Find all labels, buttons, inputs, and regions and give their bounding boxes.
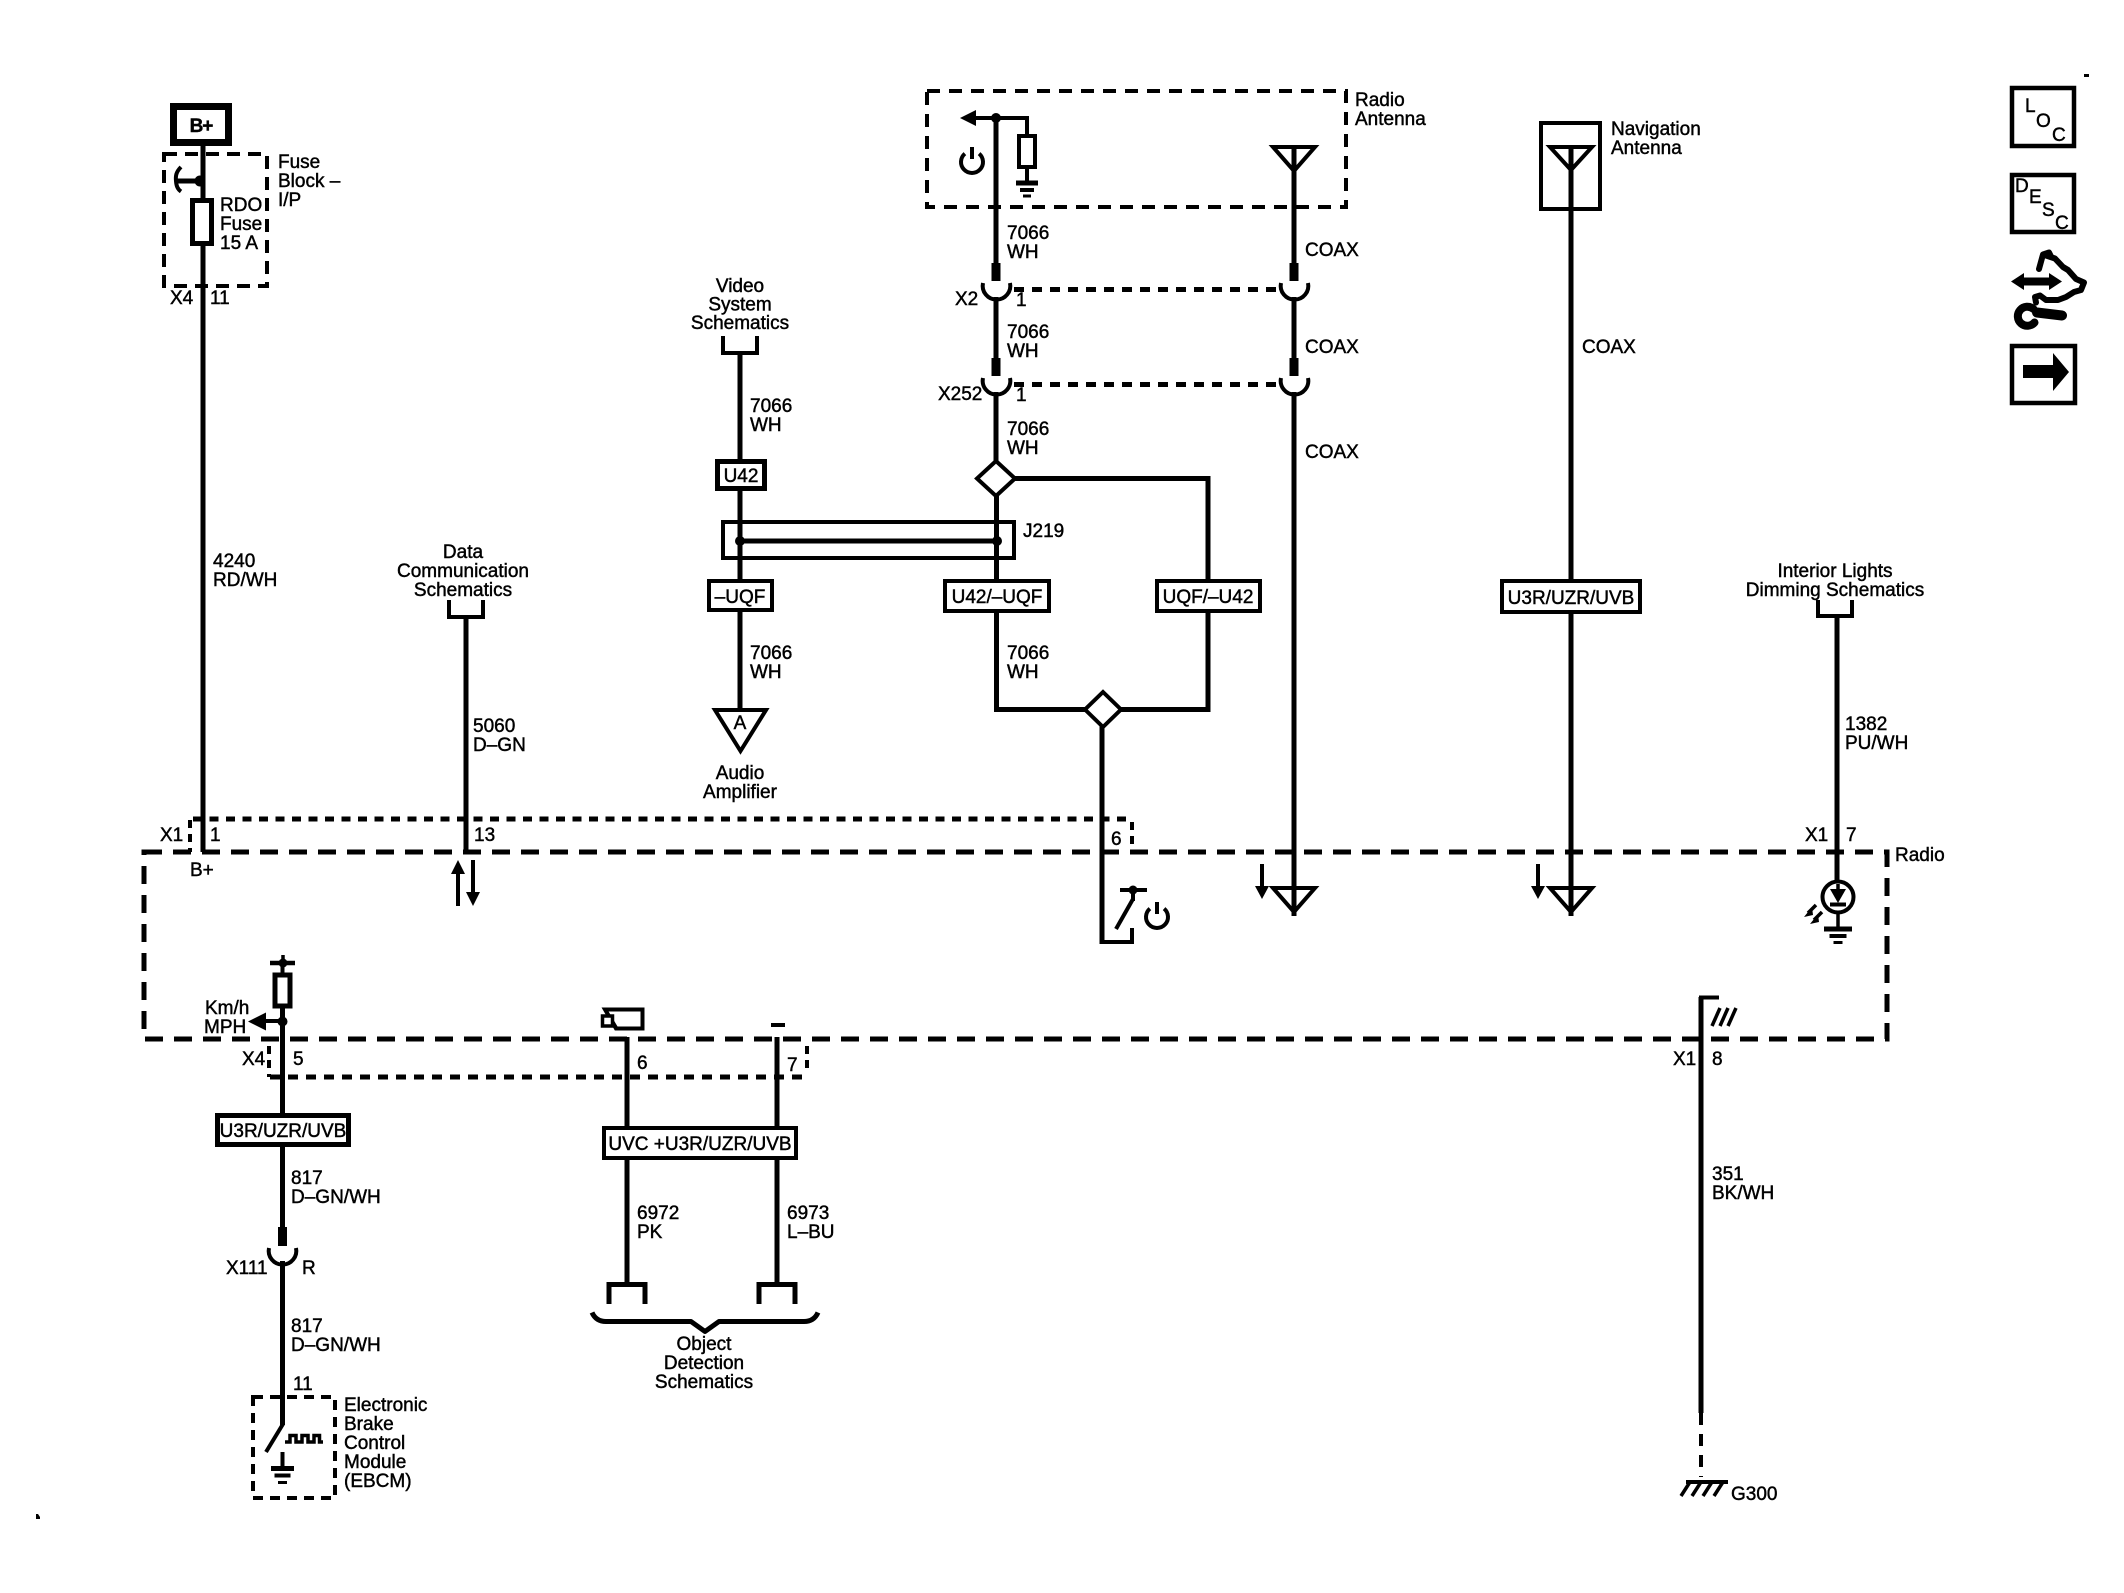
svg-text:Electronic: Electronic <box>344 1395 427 1416</box>
inline connector X252 left half <box>983 358 1011 395</box>
label 7066 WH (to lower splice) <box>1007 643 1049 683</box>
label Interior Lights Dimming Schematics <box>1746 561 1924 601</box>
svg-text:13: 13 <box>474 825 495 846</box>
svg-text:Antenna: Antenna <box>1611 138 1682 159</box>
option box -UQF <box>709 581 772 610</box>
label 5060 D-GN <box>473 716 526 756</box>
svg-text:X4: X4 <box>170 288 194 309</box>
labels X1 / 8 (bottom right pins) <box>1673 1049 1723 1070</box>
label Km/h MPH <box>204 998 249 1038</box>
DESC icon box <box>2012 175 2074 234</box>
wire radio pin X4-5 <box>280 1039 285 1115</box>
label 7066 WH (below X252) <box>1007 419 1049 459</box>
svg-text:G300: G300 <box>1731 1484 1777 1505</box>
svg-text:6972: 6972 <box>637 1203 679 1224</box>
B+ power feed box <box>174 107 229 143</box>
dashed wire to G300 <box>1699 1413 1703 1477</box>
wire 7066 WH below X252 <box>994 392 999 463</box>
label 1382 PU/WH <box>1845 714 1908 754</box>
LOC icon box <box>2012 88 2074 146</box>
fuse block I/P dashed box <box>164 154 267 286</box>
svg-text:6: 6 <box>1111 829 1122 850</box>
wire U42 to J219 <box>738 489 743 579</box>
down arrow (radio antenna coax termination) <box>1255 864 1269 899</box>
navigation antenna mast symbol <box>1550 147 1592 581</box>
svg-text:1382: 1382 <box>1845 714 1887 735</box>
svg-text:B+: B+ <box>190 860 214 881</box>
label 817 D-GN/WH (lower) <box>291 1316 381 1356</box>
labels X111 / R <box>226 1258 316 1279</box>
X1 tick (top left) <box>188 820 192 852</box>
wire 7066 WH video to U42 <box>738 355 743 461</box>
brace (object detection) <box>592 1313 818 1332</box>
inline connector X252 right half (coax) <box>1281 358 1309 395</box>
label 4240 RD/WH <box>213 551 277 591</box>
inline connector X2 left half <box>983 263 1011 300</box>
label Radio Antenna <box>1355 90 1426 130</box>
wire pin 7 <box>775 1037 780 1130</box>
svg-text:Fuse: Fuse <box>278 152 320 173</box>
wire from splice to UQF/-U42 branch <box>1013 476 1211 581</box>
label 7066 WH (video) <box>750 396 792 436</box>
svg-text:6973: 6973 <box>787 1203 829 1224</box>
label 7066 WH (to amplifier) <box>750 643 792 683</box>
svg-text:Schematics: Schematics <box>691 313 789 334</box>
down arrow (navigation coax termination) <box>1531 864 1545 899</box>
label Video System Schematics <box>691 276 789 334</box>
svg-text:351: 351 <box>1712 1164 1744 1185</box>
splice diamond (antenna lead) <box>977 461 1015 496</box>
svg-text:Audio: Audio <box>716 763 765 784</box>
wire 5060 D-GN <box>464 619 469 852</box>
vehicle/wrench icon <box>2011 253 2084 326</box>
splice pack J219 <box>723 522 1014 558</box>
svg-text:–UQF: –UQF <box>715 587 766 608</box>
svg-text:1: 1 <box>210 825 221 846</box>
wire 7066 WH between X2 and X252 <box>994 297 999 360</box>
terminal symbol (6972) <box>609 1285 645 1305</box>
svg-text:L–BU: L–BU <box>787 1222 835 1243</box>
wire 4240 RD/WH from fuse block to radio pin X1-1 <box>201 246 206 852</box>
svg-text:817: 817 <box>291 1168 323 1189</box>
inline connector X2 right half (coax) <box>1281 263 1309 300</box>
svg-text:7066: 7066 <box>1007 223 1049 244</box>
coax wire down to radio <box>1292 392 1297 916</box>
labels 6 / 7 (bottom pins) <box>637 1053 798 1076</box>
label Electronic Brake Control Module (EBCM) <box>344 1395 427 1492</box>
labels X4 / 5 (bottom pins) <box>242 1049 304 1070</box>
radio antenna dashed box <box>927 91 1346 207</box>
svg-text:Dimming Schematics: Dimming Schematics <box>1746 580 1924 601</box>
svg-text:Amplifier: Amplifier <box>703 782 778 803</box>
navigation antenna box <box>1541 123 1600 209</box>
connector X4 pin 11 labels <box>170 288 230 309</box>
svg-text:Fuse: Fuse <box>220 214 262 235</box>
pin 6 dashed tick <box>1130 822 1134 852</box>
power symbol (antenna amplifier supply) <box>961 147 983 173</box>
svg-text:D–GN/WH: D–GN/WH <box>291 1335 381 1356</box>
minus sign (pin 7) <box>771 1023 785 1027</box>
radio bottom pin row dashed line <box>270 1075 807 1080</box>
svg-text:WH: WH <box>1007 242 1039 263</box>
svg-text:Radio: Radio <box>1355 90 1405 111</box>
speck artifact bottom left <box>36 1514 40 1519</box>
svg-text:7066: 7066 <box>1007 322 1049 343</box>
radio power switch symbol <box>1102 886 1147 945</box>
svg-text:Radio: Radio <box>1895 845 1945 866</box>
wire from UQF/-U42 to lower splice <box>1119 611 1211 712</box>
off-page connector bracket (video system) <box>723 336 757 353</box>
illumination LED symbol (pin X1-7) <box>1823 852 1854 913</box>
label 7066 WH (between connectors) <box>1007 322 1049 362</box>
svg-text:15 A: 15 A <box>220 233 258 254</box>
svg-text:COAX: COAX <box>1305 337 1359 358</box>
wire 7066 WH to audio amplifier <box>738 610 743 712</box>
svg-text:BK/WH: BK/WH <box>1712 1183 1774 1204</box>
terminal symbol (6973) <box>759 1285 795 1305</box>
EBCM dashed box <box>253 1397 335 1498</box>
option box U3R/UZR/UVB (speed signal) <box>218 1116 349 1145</box>
label Fuse Block - I/P <box>278 152 341 211</box>
wire 7066 WH from U42/-UQF to lower splice <box>994 611 1087 712</box>
svg-text:Brake: Brake <box>344 1414 394 1435</box>
wire 1382 PU/WH <box>1835 618 1840 883</box>
wire from splice down through J219 <box>994 494 999 581</box>
antenna feed arrow and node inside radio antenna box <box>960 110 1027 136</box>
svg-text:PK: PK <box>637 1222 663 1243</box>
svg-text:X1: X1 <box>160 825 183 846</box>
Km/h MPH output arrow <box>248 1006 288 1039</box>
svg-text:E: E <box>2029 187 2042 208</box>
svg-text:7: 7 <box>1846 825 1857 846</box>
svg-text:X4: X4 <box>242 1049 266 1070</box>
inline connector X111 <box>269 1227 297 1265</box>
off-page connector bracket (data communication) <box>449 600 483 617</box>
svg-text:C: C <box>2055 213 2069 234</box>
label 6972 PK <box>637 1203 679 1243</box>
label 351 BK/WH <box>1712 1164 1774 1204</box>
svg-text:Detection: Detection <box>664 1353 744 1374</box>
wire 817 D-GN/WH lower <box>280 1261 285 1399</box>
svg-text:COAX: COAX <box>1582 337 1636 358</box>
labels X1 / 1 (top left pins) <box>160 825 221 846</box>
coax wire between X2 and X252 <box>1292 297 1297 360</box>
wire 817 D-GN/WH upper <box>280 1144 285 1230</box>
svg-text:WH: WH <box>750 415 782 436</box>
svg-text:UVC +U3R/UZR/UVB: UVC +U3R/UZR/UVB <box>608 1134 791 1155</box>
svg-text:Control: Control <box>344 1433 405 1454</box>
svg-text:Schematics: Schematics <box>655 1372 753 1393</box>
svg-text:Communication: Communication <box>397 561 529 582</box>
svg-text:6: 6 <box>637 1053 648 1074</box>
svg-text:A: A <box>734 713 747 734</box>
option box U42/-UQF <box>945 581 1049 611</box>
antenna receptacle symbol (navigation) <box>1550 888 1592 912</box>
svg-text:D: D <box>2015 176 2029 197</box>
svg-text:Antenna: Antenna <box>1355 109 1426 130</box>
ground inside EBCM <box>271 1452 294 1483</box>
svg-text:R: R <box>302 1258 316 1279</box>
camera icon (rear view) <box>603 1009 643 1029</box>
X4 tick (bottom) <box>267 1046 271 1077</box>
svg-text:4240: 4240 <box>213 551 255 572</box>
speed signal resistor (Km/h MPH) <box>270 955 295 1006</box>
wire 6972 PK <box>625 1158 630 1284</box>
label Data Communication Schematics <box>397 542 529 601</box>
EBCM switch and pulse generator <box>266 1399 323 1452</box>
svg-text:L: L <box>2025 96 2036 117</box>
wire from B+ into fuse block <box>201 146 206 206</box>
svg-text:U42: U42 <box>724 466 759 487</box>
connector X252 dashed row <box>1014 382 1278 387</box>
serial data bidirectional arrows inside radio <box>451 860 480 906</box>
svg-text:1: 1 <box>1016 385 1027 406</box>
pin 7 dashed tick <box>805 1046 809 1072</box>
option box UVC +U3R/UZR/UVB <box>604 1128 796 1158</box>
svg-text:7: 7 <box>787 1055 798 1076</box>
wire camera pin 6 <box>625 1037 630 1130</box>
svg-text:11: 11 <box>210 288 230 309</box>
wire 7066 WH antenna lead <box>994 118 999 265</box>
svg-text:B+: B+ <box>190 116 214 137</box>
radio connector X1 top pin row dashed line <box>193 817 1131 822</box>
forward arrow icon box <box>2012 346 2075 403</box>
labels X1 / 7 (radio top right pins) <box>1805 825 1857 846</box>
label Object Detection Schematics <box>655 1334 753 1393</box>
svg-text:7066: 7066 <box>1007 419 1049 440</box>
svg-text:1: 1 <box>1016 290 1027 311</box>
audio amplifier triangle A <box>715 710 766 751</box>
off-page connector bracket (interior lights dimming) <box>1818 600 1852 616</box>
svg-text:11: 11 <box>293 1374 313 1395</box>
wire 6973 L-BU <box>775 1158 780 1284</box>
svg-text:5060: 5060 <box>473 716 515 737</box>
LED light emission arrows <box>1804 905 1822 924</box>
svg-text:Block –: Block – <box>278 171 341 192</box>
resistor (antenna feed) <box>1019 136 1035 167</box>
svg-text:7066: 7066 <box>1007 643 1049 664</box>
svg-text:Module: Module <box>344 1452 406 1473</box>
antenna receptacle symbol (radio antenna) <box>1273 888 1315 912</box>
fuse block bus hook <box>176 167 206 192</box>
svg-text:U3R/UZR/UVB: U3R/UZR/UVB <box>220 1121 347 1142</box>
svg-text:O: O <box>2036 111 2051 132</box>
svg-text:PU/WH: PU/WH <box>1845 733 1908 754</box>
fuse RDO 15 A <box>193 201 212 244</box>
svg-text:Interior Lights: Interior Lights <box>1777 561 1892 582</box>
label Navigation Antenna <box>1611 119 1701 159</box>
svg-text:RDO: RDO <box>220 195 262 216</box>
svg-text:Navigation: Navigation <box>1611 119 1701 140</box>
radio dashed outline <box>144 852 1887 1039</box>
svg-text:Schematics: Schematics <box>414 580 512 601</box>
svg-text:Data: Data <box>443 542 484 563</box>
svg-text:UQF/–U42: UQF/–U42 <box>1163 587 1254 608</box>
svg-text:(EBCM): (EBCM) <box>344 1471 412 1492</box>
ground under LED <box>1824 913 1852 943</box>
splice diamond (lower) <box>1085 692 1121 727</box>
svg-text:D–GN/WH: D–GN/WH <box>291 1187 381 1208</box>
svg-text:J219: J219 <box>1023 521 1064 542</box>
ground G300 symbol <box>1681 1482 1728 1496</box>
option box U3R/UZR/UVB (navigation) <box>1502 581 1640 612</box>
svg-text:7066: 7066 <box>750 643 792 664</box>
svg-text:Km/h: Km/h <box>205 998 249 1019</box>
svg-text:5: 5 <box>293 1049 304 1070</box>
svg-text:D–GN: D–GN <box>473 735 526 756</box>
svg-text:C: C <box>2052 125 2066 146</box>
labels X2 / 1 <box>955 289 1027 311</box>
svg-text:COAX: COAX <box>1305 442 1359 463</box>
svg-text:X252: X252 <box>938 384 982 405</box>
wire radio ground pin X1-8 with chassis stub <box>1699 997 1719 1413</box>
label Audio Amplifier <box>703 763 778 803</box>
labels X252 / 1 <box>938 384 1027 406</box>
svg-text:8: 8 <box>1712 1049 1723 1070</box>
svg-text:X2: X2 <box>955 289 978 310</box>
ground (antenna feed) <box>1016 167 1038 196</box>
label 817 D-GN/WH (upper) <box>291 1168 381 1208</box>
svg-text:U3R/UZR/UVB: U3R/UZR/UVB <box>1508 588 1635 609</box>
svg-text:S: S <box>2042 200 2055 221</box>
radio antenna mast symbol <box>1273 147 1315 265</box>
svg-text:X111: X111 <box>226 1258 268 1279</box>
option box UQF/-U42 <box>1157 581 1260 611</box>
connector X2 dashed row <box>1014 287 1278 292</box>
svg-text:Object: Object <box>677 1334 733 1355</box>
svg-text:WH: WH <box>1007 341 1039 362</box>
navigation coax into radio <box>1569 612 1574 916</box>
power symbol (radio on/off) <box>1146 902 1168 928</box>
svg-text:7066: 7066 <box>750 396 792 417</box>
speck artifact top right <box>2084 74 2089 77</box>
svg-text:WH: WH <box>1007 662 1039 683</box>
svg-text:COAX: COAX <box>1305 240 1359 261</box>
svg-text:I/P: I/P <box>278 190 301 211</box>
label 7066 WH (antenna lead) <box>1007 223 1049 263</box>
svg-text:RD/WH: RD/WH <box>213 570 277 591</box>
chassis ground hatches (radio internal) <box>1712 1008 1736 1026</box>
svg-text:U42/–UQF: U42/–UQF <box>952 587 1043 608</box>
svg-text:817: 817 <box>291 1316 323 1337</box>
svg-text:X1: X1 <box>1673 1049 1696 1070</box>
svg-text:WH: WH <box>1007 438 1039 459</box>
svg-text:WH: WH <box>750 662 782 683</box>
wire from lower splice to radio pin 6 <box>1100 725 1105 944</box>
svg-text:X1: X1 <box>1805 825 1828 846</box>
svg-text:MPH: MPH <box>204 1017 246 1038</box>
label 6973 L-BU <box>787 1203 835 1243</box>
label RDO Fuse 15 A <box>220 195 262 254</box>
option box U42 <box>718 462 765 489</box>
